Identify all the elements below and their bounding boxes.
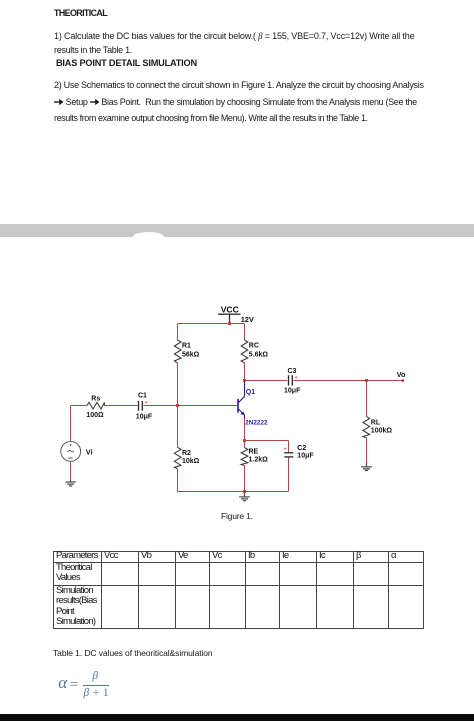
wire R2 lower bbox=[177, 469, 179, 492]
caption Table 1 bbox=[53, 648, 213, 658]
emitter arrow of Q1 bbox=[241, 411, 245, 415]
wire RE lower bbox=[244, 466, 246, 492]
node emitter junction bbox=[243, 439, 246, 442]
heading THEORITICAL bbox=[54, 8, 107, 18]
resistor RE bbox=[241, 448, 248, 466]
ground under Vi bbox=[66, 480, 76, 486]
wire RC lower to collector node bbox=[244, 363, 246, 381]
wire base bbox=[178, 405, 238, 407]
node output RL junction bbox=[365, 379, 368, 382]
power symbol VCC bbox=[218, 314, 241, 323]
node base junction bbox=[176, 404, 179, 407]
wire source to ground bbox=[70, 461, 72, 481]
wire RL lower bbox=[366, 438, 368, 464]
paragraph 2 bbox=[54, 77, 424, 126]
resistor R2 bbox=[174, 447, 181, 468]
gray separator band bbox=[0, 224, 474, 237]
node Vo terminal bbox=[402, 379, 405, 382]
bottom black bar bbox=[0, 714, 474, 721]
wire RE upper bbox=[244, 441, 246, 448]
resistor RC bbox=[241, 340, 248, 363]
heading BIAS POINT DETAIL SIMULATION bbox=[56, 58, 197, 68]
wire emitter to node bbox=[244, 419, 246, 441]
paragraph 1 bbox=[54, 29, 414, 58]
wire emitter node to C2 branch bbox=[245, 440, 289, 442]
caption Figure 1. bbox=[221, 511, 253, 521]
capacitor C2 bbox=[284, 453, 293, 457]
wire C1 to base junction bbox=[144, 405, 178, 407]
wire R2 branch upper bbox=[177, 406, 179, 448]
transistor Q1 bbox=[238, 382, 245, 419]
wire collector node to C3 bbox=[245, 380, 288, 382]
wire R1 lower to junction bbox=[177, 363, 179, 406]
resistor Rs bbox=[87, 402, 105, 409]
table 1 bbox=[53, 551, 424, 629]
wire RL upper bbox=[366, 381, 368, 417]
node bottom rail junction bbox=[243, 490, 246, 493]
wire source vertical bbox=[70, 406, 72, 442]
resistor R1 bbox=[174, 340, 181, 363]
wire R1 branch upper bbox=[177, 324, 179, 341]
polarity dot of Vi bbox=[70, 444, 72, 446]
wire bottom rail bbox=[178, 491, 289, 493]
wire C3 to output bbox=[294, 380, 403, 382]
wire top rail bbox=[178, 323, 245, 325]
node collector bbox=[243, 379, 246, 382]
source Vi bbox=[61, 442, 81, 462]
wire Rs to C1 bbox=[105, 405, 138, 407]
wire RC branch upper bbox=[244, 324, 246, 341]
ground bottom center bbox=[239, 492, 250, 501]
ground under RL bbox=[361, 463, 372, 471]
node at VCC junction bbox=[228, 322, 231, 325]
capacitor C3 bbox=[289, 375, 293, 385]
resistor RL bbox=[363, 417, 370, 439]
wire C2 lower bbox=[288, 458, 290, 492]
white bump on band bbox=[133, 232, 164, 237]
capacitor C1 bbox=[139, 401, 143, 411]
wire C2 branch vertical upper bbox=[288, 441, 290, 453]
wire input top bbox=[71, 405, 88, 407]
